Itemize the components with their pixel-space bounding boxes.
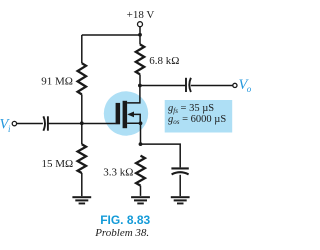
svg-text:FIG. 8.83: FIG. 8.83 — [100, 213, 150, 227]
svg-text:o: o — [247, 84, 252, 94]
svg-text:+18 V: +18 V — [127, 9, 155, 21]
svg-text:Problem 38.: Problem 38. — [94, 227, 149, 239]
svg-text:91 MΩ: 91 MΩ — [41, 75, 73, 87]
svg-text:15 MΩ: 15 MΩ — [41, 158, 73, 170]
svg-text:6.8 kΩ: 6.8 kΩ — [149, 55, 179, 67]
svg-text:3.3 kΩ: 3.3 kΩ — [103, 166, 133, 178]
